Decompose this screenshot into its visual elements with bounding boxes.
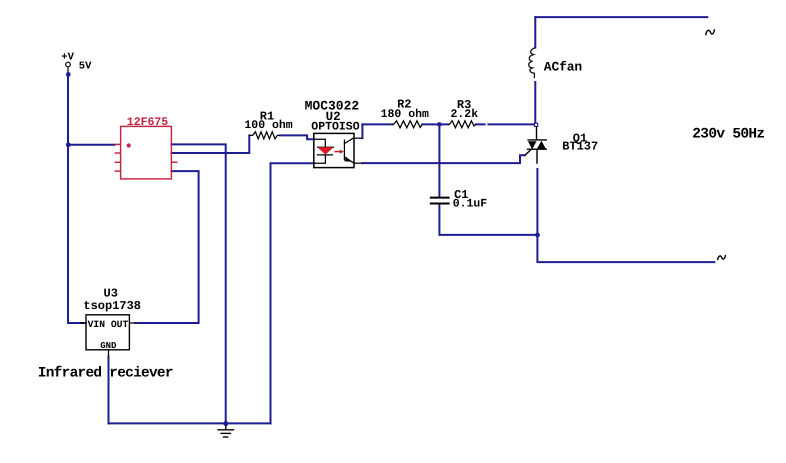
svg-text:12F675: 12F675 — [127, 116, 169, 129]
svg-text:0.1uF: 0.1uF — [453, 197, 488, 210]
svg-text:OPTOISO: OPTOISO — [311, 120, 359, 133]
svg-text:ACfan: ACfan — [544, 60, 583, 75]
svg-text:2.2k: 2.2k — [451, 108, 479, 121]
svg-text:GND: GND — [100, 341, 117, 351]
svg-text:+V: +V — [61, 51, 74, 63]
svg-text:180 ohm: 180 ohm — [381, 108, 429, 121]
svg-text:100 ohm: 100 ohm — [244, 119, 292, 132]
svg-text:tsop1738: tsop1738 — [83, 299, 141, 313]
svg-text:230v 50Hz: 230v 50Hz — [692, 126, 764, 142]
svg-text:BT137: BT137 — [562, 140, 598, 154]
svg-text:VIN OUT: VIN OUT — [88, 319, 129, 330]
svg-text:5V: 5V — [79, 61, 92, 73]
svg-text:Infrared reciever: Infrared reciever — [38, 365, 173, 381]
